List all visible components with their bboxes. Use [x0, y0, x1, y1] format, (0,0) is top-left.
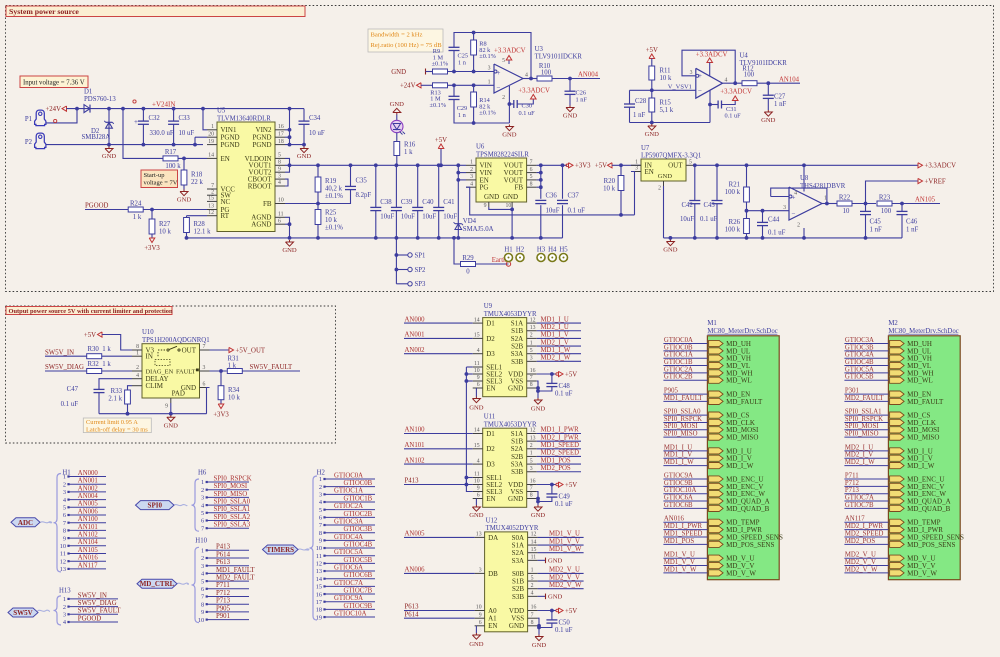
svg-text:PGND: PGND: [252, 141, 271, 149]
svg-text:AN002: AN002: [405, 347, 426, 354]
svg-text:EN: EN: [645, 168, 654, 176]
svg-text:AN005: AN005: [405, 531, 426, 538]
svg-text:TLV9101IDCKR: TLV9101IDCKR: [535, 54, 583, 61]
svg-text:P905: P905: [664, 388, 679, 395]
svg-text:MD2_I_U: MD2_I_U: [541, 324, 569, 331]
svg-text:6: 6: [479, 620, 482, 626]
svg-text:TPS1H200AQDGNRQ1: TPS1H200AQDGNRQ1: [142, 337, 210, 344]
svg-text:RT: RT: [221, 212, 230, 220]
svg-text:MD2_V_U: MD2_V_U: [549, 567, 580, 574]
svg-text:TPSM828224SILR: TPSM828224SILR: [476, 151, 529, 158]
svg-text:11: 11: [60, 551, 66, 558]
svg-text:MD2_POS: MD2_POS: [541, 465, 571, 472]
svg-text:−: −: [698, 87, 702, 95]
svg-text:3: 3: [63, 612, 66, 619]
svg-text:C27: C27: [774, 94, 786, 101]
svg-text:GTIOC10A: GTIOC10A: [334, 610, 367, 617]
svg-text:GND: GND: [177, 197, 192, 204]
svg-text:GND: GND: [469, 405, 484, 412]
svg-text:MD_MISO: MD_MISO: [726, 434, 758, 442]
svg-text:5: 5: [278, 153, 281, 159]
svg-text:AN105: AN105: [78, 547, 99, 554]
svg-text:U9: U9: [484, 303, 493, 310]
svg-text:1 k: 1 k: [228, 363, 237, 370]
svg-text:AN100: AN100: [405, 427, 426, 434]
svg-text:9: 9: [477, 486, 480, 492]
svg-text:C44: C44: [768, 217, 780, 224]
svg-text:±0.1%: ±0.1%: [432, 61, 449, 68]
svg-text:10: 10: [506, 203, 512, 209]
svg-text:MD_POS_SENS: MD_POS_SENS: [907, 541, 955, 549]
svg-text:3: 3: [690, 70, 693, 76]
svg-text:±0.1%: ±0.1%: [430, 102, 447, 109]
svg-text:MD_FAULT: MD_FAULT: [726, 398, 763, 406]
svg-text:GND: GND: [548, 558, 563, 565]
svg-text:M1: M1: [707, 320, 716, 327]
svg-text:3: 3: [319, 492, 322, 499]
svg-text:GTIOC5A: GTIOC5A: [845, 366, 874, 373]
svg-text:PGND: PGND: [221, 141, 240, 149]
svg-text:GTIOC7B: GTIOC7B: [344, 587, 373, 594]
svg-text:GTIOC4B: GTIOC4B: [845, 359, 874, 366]
svg-text:SPI0_RSPCK: SPI0_RSPCK: [214, 475, 252, 482]
svg-text:C34: C34: [309, 115, 321, 122]
svg-text:R29: R29: [462, 255, 474, 262]
svg-text:10: 10: [843, 208, 850, 215]
svg-text:8: 8: [136, 344, 139, 350]
svg-text:10 k: 10 k: [159, 229, 171, 236]
svg-text:14: 14: [316, 576, 323, 583]
svg-text:100: 100: [541, 70, 552, 77]
svg-text:MD2_V_V: MD2_V_V: [549, 574, 580, 581]
svg-text:1: 1: [201, 479, 204, 486]
svg-text:PG: PG: [480, 184, 489, 192]
svg-text:3: 3: [201, 563, 204, 570]
svg-text:SPI0_SSLA3: SPI0_SSLA3: [214, 522, 251, 529]
svg-text:GND: GND: [297, 153, 312, 160]
svg-text:MD2_I_V: MD2_I_V: [845, 452, 873, 459]
svg-text:±0.1%: ±0.1%: [479, 110, 496, 117]
svg-text:1: 1: [63, 596, 66, 603]
svg-text:FB: FB: [263, 200, 272, 208]
svg-text:2: 2: [201, 487, 204, 494]
svg-text:+3V3: +3V3: [144, 245, 160, 252]
svg-text:GND: GND: [509, 622, 524, 630]
svg-text:MD2_V_W: MD2_V_W: [549, 582, 582, 589]
svg-text:11: 11: [531, 555, 537, 561]
svg-text:40,2 k: 40,2 k: [325, 185, 343, 192]
svg-text:0.1 uF: 0.1 uF: [700, 216, 718, 223]
svg-text:AN100: AN100: [78, 516, 99, 523]
svg-text:OUT: OUT: [182, 346, 197, 354]
svg-text:MD1_FAULT: MD1_FAULT: [664, 395, 703, 402]
svg-text:GTIOC1B: GTIOC1B: [664, 359, 693, 366]
svg-text:Latch-off delay = 30 ms: Latch-off delay = 30 ms: [86, 427, 148, 434]
svg-text:MD2_I_PWR: MD2_I_PWR: [845, 523, 884, 530]
svg-text:R28: R28: [194, 221, 206, 228]
svg-text:10 uF: 10 uF: [309, 130, 325, 137]
svg-text:SPI0_SSLA0: SPI0_SSLA0: [214, 499, 251, 506]
svg-text:10 uF: 10 uF: [179, 130, 195, 137]
svg-text:GTIOC6B: GTIOC6B: [664, 502, 693, 509]
svg-text:AN002: AN002: [78, 485, 99, 492]
svg-text:4: 4: [794, 191, 797, 197]
svg-text:H13: H13: [59, 588, 71, 595]
svg-text:17: 17: [316, 599, 322, 606]
svg-text:AN101: AN101: [78, 524, 98, 531]
svg-text:P2: P2: [25, 139, 33, 146]
svg-text:SPI0_MISO: SPI0_MISO: [845, 431, 879, 438]
svg-text:5: 5: [689, 160, 692, 166]
svg-text:MD1_SPEED: MD1_SPEED: [541, 442, 580, 449]
svg-text:GND: GND: [508, 384, 523, 392]
svg-text:12: 12: [208, 210, 214, 216]
svg-text:GTIOC9A: GTIOC9A: [334, 595, 363, 602]
svg-text:1 n: 1 n: [458, 60, 467, 67]
svg-text:U7: U7: [641, 145, 650, 152]
svg-text:EN: EN: [486, 495, 495, 503]
svg-text:U10: U10: [142, 329, 154, 336]
svg-text:7: 7: [63, 520, 66, 527]
svg-text:4: 4: [725, 77, 728, 83]
svg-text:SPI0_SSLA2: SPI0_SSLA2: [214, 514, 251, 521]
svg-text:C37: C37: [568, 193, 580, 200]
svg-text:GND: GND: [761, 117, 776, 124]
svg-text:5,1 k: 5,1 k: [660, 107, 674, 114]
svg-text:7: 7: [530, 375, 533, 381]
svg-text:3: 3: [470, 174, 473, 180]
svg-text:0.1 uF: 0.1 uF: [725, 113, 742, 120]
svg-text:100 k: 100 k: [725, 227, 741, 234]
svg-text:R20: R20: [604, 178, 616, 185]
svg-text:EN: EN: [486, 384, 495, 392]
svg-text:+3.3ADCV: +3.3ADCV: [494, 47, 526, 54]
svg-text:U12: U12: [486, 517, 498, 524]
svg-text:+5V: +5V: [435, 137, 447, 144]
svg-text:S3B: S3B: [512, 593, 524, 601]
svg-text:FAULT: FAULT: [176, 368, 196, 375]
svg-text:R31: R31: [228, 356, 239, 363]
svg-text:AN117: AN117: [78, 562, 98, 569]
svg-text:MD_QUAD_B: MD_QUAD_B: [726, 505, 770, 513]
svg-text:3: 3: [530, 466, 533, 472]
svg-text:MD2_SPEED: MD2_SPEED: [541, 450, 580, 457]
svg-text:10 k: 10 k: [228, 395, 240, 402]
svg-text:19: 19: [208, 139, 214, 145]
svg-text:14: 14: [474, 428, 480, 434]
svg-text:10: 10: [476, 605, 482, 611]
svg-text:10: 10: [316, 545, 322, 552]
svg-text:R25: R25: [325, 209, 337, 216]
svg-text:3: 3: [278, 173, 281, 179]
svg-text:GTIOC5A: GTIOC5A: [334, 549, 363, 556]
svg-text:4: 4: [136, 373, 139, 379]
svg-text:15: 15: [316, 584, 322, 591]
svg-text:V_VSV1: V_VSV1: [668, 83, 692, 90]
svg-text:D2: D2: [486, 335, 495, 343]
svg-text:SW5V_DIAG: SW5V_DIAG: [78, 600, 117, 607]
svg-text:MD1_I_W: MD1_I_W: [541, 347, 571, 354]
svg-text:U11: U11: [484, 414, 495, 421]
svg-text:MD1_POS: MD1_POS: [541, 457, 571, 464]
svg-text:SP3: SP3: [415, 281, 427, 288]
svg-text:−: −: [497, 84, 501, 92]
svg-text:C41: C41: [443, 199, 454, 206]
svg-text:C38: C38: [380, 199, 392, 206]
svg-text:GND: GND: [563, 113, 578, 120]
svg-text:1: 1: [136, 350, 139, 356]
svg-text:D3: D3: [486, 461, 495, 469]
svg-text:R21: R21: [729, 182, 740, 189]
svg-text:2: 2: [211, 189, 214, 195]
svg-text:GTIOC2A: GTIOC2A: [334, 503, 363, 510]
svg-text:MD1_V_W: MD1_V_W: [549, 546, 582, 553]
svg-text:FB: FB: [515, 184, 524, 192]
svg-text:+24V: +24V: [400, 83, 416, 90]
svg-text:Input voltage = 7.36 V: Input voltage = 7.36 V: [23, 79, 85, 86]
svg-text:AN004: AN004: [578, 72, 599, 79]
svg-text:C32: C32: [149, 115, 161, 122]
svg-text:AN000: AN000: [78, 470, 99, 477]
svg-text:0.1 uF: 0.1 uF: [568, 207, 586, 214]
svg-text:+3.3ADCV: +3.3ADCV: [925, 163, 957, 170]
svg-text:15: 15: [474, 333, 480, 339]
svg-text:C33: C33: [179, 115, 191, 122]
svg-text:MD_MISO: MD_MISO: [907, 434, 939, 442]
svg-text:6: 6: [477, 382, 480, 388]
svg-text:4: 4: [470, 181, 473, 187]
svg-text:IN: IN: [146, 353, 153, 361]
svg-text:EN: EN: [488, 622, 497, 630]
svg-text:H10: H10: [195, 538, 207, 545]
svg-text:GTIOC1B: GTIOC1B: [344, 495, 373, 502]
svg-text:13: 13: [476, 532, 482, 538]
svg-text:GTIOC9B: GTIOC9B: [344, 603, 373, 610]
svg-text:9: 9: [278, 166, 281, 172]
svg-text:SPI0_SSLA1: SPI0_SSLA1: [214, 506, 251, 513]
svg-text:1: 1: [635, 160, 638, 166]
svg-text:R18: R18: [191, 172, 203, 179]
svg-text:3: 3: [530, 356, 533, 362]
svg-text:15: 15: [208, 196, 214, 202]
svg-text:10uF: 10uF: [422, 214, 436, 221]
svg-text:GND: GND: [503, 193, 518, 201]
svg-text:ADC: ADC: [18, 519, 33, 527]
svg-text:MD2_FAULT: MD2_FAULT: [216, 575, 255, 582]
svg-text:GND: GND: [658, 173, 673, 180]
svg-text:MD_V_W: MD_V_W: [726, 569, 756, 577]
svg-text:SPI0_MOSI: SPI0_MOSI: [664, 423, 698, 430]
svg-text:MD2_V_V: MD2_V_V: [845, 559, 876, 566]
svg-text:SP1: SP1: [415, 252, 426, 259]
svg-text:MD1_I_V: MD1_I_V: [541, 332, 569, 339]
svg-text:H1: H1: [504, 247, 512, 254]
svg-text:1: 1: [201, 548, 204, 555]
svg-text:10uF: 10uF: [401, 214, 415, 221]
svg-text:LP5907QMFX-3.3Q1: LP5907QMFX-3.3Q1: [641, 153, 701, 160]
svg-text:4: 4: [531, 591, 534, 597]
svg-text:8: 8: [530, 382, 533, 388]
svg-text:H4: H4: [548, 247, 557, 254]
svg-text:10: 10: [278, 198, 284, 204]
svg-text:14: 14: [208, 153, 214, 159]
svg-text:C50: C50: [559, 619, 571, 626]
svg-text:13: 13: [530, 435, 536, 441]
svg-text:MC80_MeterDrv.SchDoc: MC80_MeterDrv.SchDoc: [707, 328, 777, 335]
svg-text:MD1_FAULT: MD1_FAULT: [216, 567, 255, 574]
svg-text:SPI0: SPI0: [148, 502, 163, 510]
svg-text:5: 5: [530, 174, 533, 180]
svg-text:GTIOC4A: GTIOC4A: [334, 534, 363, 541]
svg-text:C39: C39: [401, 199, 413, 206]
svg-text:D3: D3: [486, 350, 495, 358]
svg-text:MD_POS_SENS: MD_POS_SENS: [726, 541, 774, 549]
svg-text:R24: R24: [130, 200, 142, 207]
svg-text:P712: P712: [216, 590, 231, 597]
svg-text:GTIOC1A: GTIOC1A: [334, 488, 363, 495]
svg-text:11: 11: [316, 553, 322, 560]
svg-text:P413: P413: [405, 478, 420, 485]
svg-text:SW5V_IN: SW5V_IN: [45, 349, 74, 356]
svg-text:GTIOC10A: GTIOC10A: [664, 487, 697, 494]
svg-text:AN000: AN000: [405, 316, 426, 323]
svg-text:D1: D1: [486, 430, 495, 438]
svg-text:7: 7: [201, 594, 204, 601]
svg-text:MD2_I_W: MD2_I_W: [845, 459, 875, 466]
svg-text:MD_FAULT: MD_FAULT: [907, 398, 944, 406]
svg-text:6: 6: [201, 586, 204, 593]
svg-text:9: 9: [63, 535, 66, 542]
svg-text:GND: GND: [532, 642, 547, 649]
svg-text:C46: C46: [906, 218, 918, 225]
svg-text:+5V: +5V: [565, 482, 577, 489]
svg-text:7: 7: [319, 522, 322, 529]
svg-text:2: 2: [531, 583, 534, 589]
svg-text:3: 3: [635, 166, 638, 172]
svg-text:330.0 uF: 330.0 uF: [150, 130, 174, 137]
svg-text:2.1 k: 2.1 k: [108, 395, 122, 402]
svg-text:SPI0_MISO: SPI0_MISO: [664, 431, 698, 438]
svg-text:Current limit 0.95 A: Current limit 0.95 A: [86, 419, 138, 426]
svg-text:GND: GND: [531, 512, 546, 519]
svg-text:GTIOC3A: GTIOC3A: [845, 337, 874, 344]
svg-text:14: 14: [531, 539, 537, 545]
svg-text:7: 7: [211, 183, 214, 189]
svg-text:GTIOC0B: GTIOC0B: [664, 344, 693, 351]
svg-text:C47: C47: [67, 386, 79, 393]
svg-text:P1: P1: [25, 116, 32, 123]
svg-text:SP2: SP2: [415, 267, 427, 274]
svg-text:12: 12: [530, 428, 536, 434]
svg-text:10 k: 10 k: [603, 186, 615, 193]
svg-text:GTIOC0A: GTIOC0A: [334, 472, 363, 479]
svg-text:13: 13: [208, 204, 214, 210]
svg-text:R11: R11: [660, 67, 671, 74]
svg-text:2: 2: [530, 443, 533, 449]
svg-text:P613: P613: [216, 559, 231, 566]
svg-text:1 nF: 1 nF: [576, 97, 588, 104]
svg-text:P613: P613: [405, 604, 420, 611]
svg-text:9: 9: [201, 609, 204, 616]
svg-text:P711: P711: [216, 582, 230, 589]
svg-text:GTIOC6B: GTIOC6B: [344, 572, 373, 579]
svg-text:MC80_MeterDrv.SchDoc: MC80_MeterDrv.SchDoc: [888, 328, 958, 335]
svg-text:R27: R27: [159, 221, 171, 228]
svg-text:GTIOC1A: GTIOC1A: [664, 352, 693, 359]
svg-text:C35: C35: [356, 177, 368, 184]
svg-text:11: 11: [474, 361, 480, 367]
svg-text:5: 5: [201, 578, 204, 585]
svg-text:M2: M2: [888, 320, 898, 327]
svg-text:8: 8: [201, 601, 204, 608]
svg-text:S3B: S3B: [511, 358, 523, 366]
svg-text:C43: C43: [704, 202, 716, 209]
svg-text:10: 10: [474, 479, 480, 485]
svg-text:9: 9: [165, 404, 168, 410]
svg-text:AN004: AN004: [78, 493, 99, 500]
svg-text:MD2_I_PWR: MD2_I_PWR: [541, 434, 580, 441]
svg-text:GND: GND: [508, 495, 523, 503]
svg-text:H2: H2: [516, 247, 525, 254]
svg-text:C28: C28: [635, 98, 647, 105]
svg-text:P614: P614: [216, 551, 231, 558]
svg-text:5: 5: [63, 505, 66, 512]
svg-text:8: 8: [63, 528, 66, 535]
svg-text:10uF: 10uF: [546, 207, 560, 214]
svg-text:8: 8: [319, 530, 322, 537]
svg-text:SPI0_RSPCK: SPI0_RSPCK: [664, 416, 702, 423]
svg-text:S3A: S3A: [512, 557, 524, 565]
svg-text:+V24IN: +V24IN: [152, 101, 175, 109]
svg-text:SW5V_DIAG: SW5V_DIAG: [45, 364, 84, 371]
svg-text:3: 3: [783, 205, 786, 211]
svg-text:C48: C48: [559, 383, 571, 390]
svg-text:MD_WL: MD_WL: [726, 377, 752, 385]
svg-text:2: 2: [201, 555, 204, 562]
svg-text:MD1_POS: MD1_POS: [664, 538, 694, 545]
svg-text:R34: R34: [228, 387, 240, 394]
svg-text:GTIOC5B: GTIOC5B: [845, 374, 874, 381]
svg-text:H6: H6: [198, 470, 207, 477]
svg-text:SW5V_FAULT: SW5V_FAULT: [250, 364, 294, 371]
svg-text:MD2_SPEED: MD2_SPEED: [845, 530, 884, 537]
svg-text:3: 3: [203, 365, 206, 371]
svg-text:C49: C49: [559, 493, 571, 500]
svg-text:GND: GND: [502, 132, 517, 139]
svg-text:AN101: AN101: [405, 442, 425, 449]
svg-text:2: 2: [136, 365, 139, 371]
svg-text:C36: C36: [546, 193, 558, 200]
svg-text:1: 1: [531, 568, 534, 574]
svg-text:22 k: 22 k: [191, 179, 203, 186]
svg-text:16: 16: [530, 479, 536, 485]
svg-text:MD1_I_V: MD1_I_V: [664, 452, 692, 459]
svg-text:1: 1: [470, 160, 473, 166]
svg-text:14: 14: [474, 317, 480, 323]
svg-text:8.2pF: 8.2pF: [356, 192, 372, 199]
svg-text:1 nF: 1 nF: [906, 226, 918, 233]
svg-text:16: 16: [278, 124, 284, 130]
svg-text:Rej.ratio (100 Hz) = 75 dB: Rej.ratio (100 Hz) = 75 dB: [371, 42, 443, 49]
svg-text:SMAJ5.0A: SMAJ5.0A: [463, 226, 494, 233]
svg-text:GTIOC3A: GTIOC3A: [334, 518, 363, 525]
svg-text:GND: GND: [548, 594, 563, 601]
svg-text:GND: GND: [645, 131, 660, 138]
svg-text:MD2_I_W: MD2_I_W: [541, 355, 571, 362]
svg-text:MD1_V_U: MD1_V_U: [549, 531, 580, 538]
svg-text:AN117: AN117: [845, 516, 865, 523]
svg-text:U3: U3: [535, 46, 544, 53]
